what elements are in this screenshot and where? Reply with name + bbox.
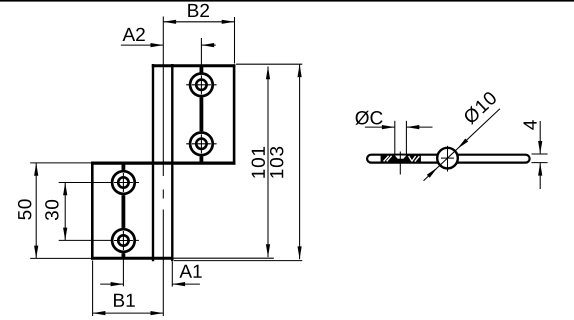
lower hole 2 bore inner circle <box>118 235 128 245</box>
extension line B1 left <box>92 261 94 317</box>
lower leaf bottom edge <box>91 257 174 260</box>
lower hole 2 countersink outer circle <box>112 229 135 252</box>
dimension 4 <box>539 121 541 154</box>
extension line A1 right (knuckle edge) <box>171 262 173 287</box>
upper hole 1 horizontal center mark <box>186 84 216 86</box>
hinge pin centerline (fold line) <box>162 17 164 177</box>
O10 text <box>462 90 498 125</box>
dimension 101 <box>267 67 269 258</box>
upper holes vertical centerline <box>200 38 202 163</box>
upper hole 1 countersink outer circle <box>190 74 213 97</box>
dimension A1 <box>100 283 123 285</box>
lower hole 2 horizontal center mark / 30-dim extension <box>59 239 139 241</box>
lower hole 1 countersink outer circle <box>112 171 135 194</box>
middle shared edge (upper leaf bottom / lower leaf top) <box>91 162 235 165</box>
lower hole 1 horizontal center mark / 30-dim extension <box>59 182 139 184</box>
extension line B2 right <box>234 17 236 64</box>
knuckle circle (pin boss) <box>437 148 458 169</box>
lower leaf hole stubs <box>122 164 126 171</box>
extension line 50-dim top <box>30 162 91 164</box>
upper leaf right edge <box>233 64 236 164</box>
knuckle strip right edge <box>171 64 173 261</box>
extension line 101 bottom <box>173 257 274 259</box>
extension lines for 4 dim <box>532 153 548 155</box>
upper hole 2 horizontal center mark <box>186 143 216 145</box>
knuckle strip left edge <box>152 64 154 261</box>
upper hole 2 center cross <box>192 143 211 145</box>
upper leaf top edge <box>152 64 236 67</box>
upper hole 1 bore inner circle <box>196 80 206 90</box>
lower leaf left edge <box>91 162 94 260</box>
extension line 50-dim bottom <box>30 257 91 259</box>
countersunk hole centerline <box>399 152 401 175</box>
lower hole 2 center cross <box>114 240 133 242</box>
dimension 103 <box>299 64 301 259</box>
extension line 103 bottom <box>174 260 302 262</box>
lower holes vertical centerline <box>122 164 124 287</box>
extension line 103 top <box>236 63 302 65</box>
dimension B1 <box>93 312 164 314</box>
upper hole 1 center cross <box>192 84 211 86</box>
countersink mouth <box>395 156 407 159</box>
dimension A2 <box>121 44 163 46</box>
section hatch zone <box>381 156 421 162</box>
dimension 30 <box>64 183 66 241</box>
dimension OC <box>365 126 395 128</box>
lower hole 1 center cross <box>114 182 133 184</box>
lower hole 1 bore inner circle <box>118 177 128 187</box>
knuckle circle center cross <box>441 157 454 159</box>
upper leaf hole stubs <box>199 66 203 73</box>
countersink extension lines (OC) <box>394 121 396 156</box>
top border line <box>0 0 574 2</box>
side view leaf bar <box>367 155 529 163</box>
dimension O10 leader line <box>424 109 500 181</box>
upper hole 2 countersink outer circle <box>190 133 213 156</box>
upper hole 2 bore inner circle <box>196 139 206 149</box>
hatch white stripes <box>384 156 389 162</box>
dimension B2 <box>163 21 234 23</box>
dimension 50 <box>35 163 37 259</box>
